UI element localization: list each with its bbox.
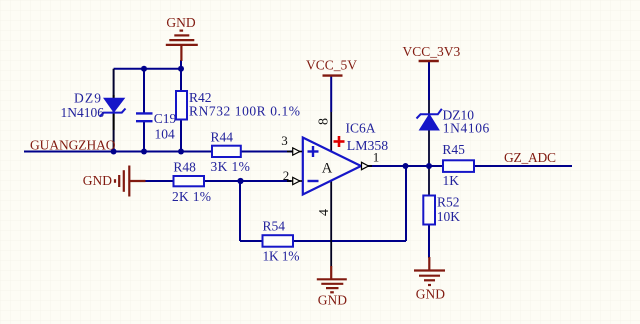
wire DZ9 vertical [113, 69, 115, 152]
wire R48 row [145, 180, 291, 182]
svg-text:LM358: LM358 [347, 138, 388, 153]
svg-text:1N4106: 1N4106 [61, 105, 105, 120]
svg-text:GND: GND [318, 293, 347, 308]
pin 4 line from op-amp bottom edge to GND [330, 181, 332, 267]
svg-text:R54: R54 [263, 218, 286, 233]
svg-text:8: 8 [317, 118, 332, 125]
svg-text:3: 3 [281, 133, 288, 148]
svg-text:2K 1%: 2K 1% [172, 189, 211, 204]
wire R52 bottom [428, 224, 430, 258]
svg-text:DZ9: DZ9 [74, 91, 101, 106]
wire VCC_5V stem down [330, 77, 332, 113]
svg-text:R44: R44 [211, 129, 234, 144]
junction node rail-C19 [141, 66, 147, 72]
svg-text:104: 104 [155, 126, 176, 141]
op-amp red plus marker [334, 136, 345, 147]
wire GUANGZHAO horizontal [24, 151, 293, 153]
svg-text:GZ_ADC: GZ_ADC [504, 150, 556, 165]
wire feedback up [405, 166, 407, 241]
wire C19 vertical bottom [143, 122, 145, 152]
svg-text:1K 1%: 1K 1% [263, 249, 300, 264]
op-amp U IC6A triangle [303, 138, 361, 195]
svg-text:GND: GND [166, 15, 195, 30]
svg-text:R52: R52 [437, 194, 460, 209]
svg-text:10K: 10K [437, 209, 461, 224]
pin 2 line and arrow [287, 180, 302, 182]
pin 1 line and arrow [361, 165, 372, 167]
resistor R48 [174, 176, 205, 186]
junction node R42-GUANGZHAO [178, 149, 184, 155]
junction node output-feedback [403, 163, 409, 169]
svg-text:RN732 100R 0.1%: RN732 100R 0.1% [189, 103, 300, 118]
svg-text:C19: C19 [154, 111, 177, 126]
junction node output-DZ10 [426, 163, 432, 169]
svg-text:GUANGZHAO: GUANGZHAO [30, 138, 116, 153]
svg-text:VCC_3V3: VCC_3V3 [403, 44, 461, 59]
junction node DZ9-GUANGZHAO [111, 149, 117, 155]
svg-text:VCC_5V: VCC_5V [306, 58, 357, 73]
op-amp plus sign [308, 146, 319, 157]
svg-text:IC6A: IC6A [346, 120, 376, 135]
svg-text:GND: GND [83, 173, 112, 188]
pin 8 line into op-amp top edge [330, 112, 332, 151]
junction node R48-R54 [237, 178, 243, 184]
junction node rail-R42 [178, 66, 184, 72]
resistor R42 [176, 91, 187, 120]
resistor R45 [443, 160, 474, 172]
power VCC_5V bar [323, 74, 343, 76]
wire VCC_3V3 stem down [428, 62, 430, 100]
ground GND below op-amp symbol [317, 266, 347, 292]
resistor R44 [212, 146, 241, 157]
wire top rail [114, 68, 181, 70]
power VCC_3V3 bar [419, 60, 439, 62]
ground GND top symbol [166, 31, 198, 61]
pin 3 line and arrow [287, 151, 302, 153]
diode DZ9 [100, 95, 126, 130]
wire R54 row [240, 240, 406, 242]
svg-text:1: 1 [373, 150, 380, 165]
pin line through DZ10 to output wire and R52 [428, 100, 430, 196]
svg-text:3K 1%: 3K 1% [211, 159, 250, 174]
svg-text:R48: R48 [173, 159, 196, 174]
wire R54 branch down [239, 181, 241, 241]
resistor R54 [263, 235, 294, 247]
op-amp minus sign [308, 180, 319, 182]
junction node C19-GUANGZHAO [141, 149, 147, 155]
svg-text:2: 2 [283, 168, 290, 183]
svg-text:1K: 1K [443, 173, 460, 188]
wire R42 bottom [180, 119, 182, 152]
svg-text:A: A [322, 161, 333, 177]
diode DZ10 [417, 109, 442, 130]
svg-text:4: 4 [317, 209, 332, 216]
wire R42 top [180, 60, 182, 92]
resistor R52 [423, 196, 435, 225]
ground GND below R52 symbol [414, 257, 445, 285]
svg-text:GND: GND [416, 286, 445, 301]
svg-text:1N4106: 1N4106 [443, 120, 490, 135]
capacitor C19 [136, 113, 153, 121]
wire C19 vertical top [143, 69, 145, 113]
svg-text:R45: R45 [442, 142, 465, 157]
ground GND left rotated symbol [115, 166, 146, 197]
wire output row [361, 165, 572, 167]
